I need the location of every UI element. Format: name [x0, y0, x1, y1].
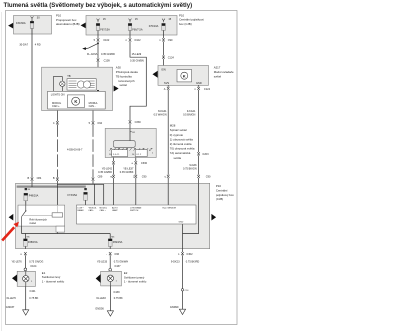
connector C96 under F69	[109, 252, 112, 255]
svg-text:C104: C104	[30, 264, 37, 268]
A30 inner module box	[48, 91, 106, 109]
wire auto lamp	[113, 183, 115, 205]
lamp symbol lights-on telltale	[60, 81, 65, 86]
A217 inner K box	[177, 70, 192, 82]
svg-text:0.35 GN/RD: 0.35 GN/RD	[101, 52, 115, 56]
svg-text:C330: C330	[135, 120, 142, 124]
svg-text:GND56: GND56	[95, 306, 104, 310]
svg-text:0.75 GN/WH: 0.75 GN/WH	[114, 259, 129, 263]
branch wire FL-GOVL with arrow	[86, 43, 98, 48]
svg-text:světel: světel	[29, 221, 36, 225]
svg-text:C94: C94	[97, 121, 102, 125]
svg-text:BEAM: BEAM	[78, 209, 84, 212]
svg-text:9-KA41: 9-KA41	[187, 109, 196, 113]
connector pins 4 and 5 under A30	[56, 111, 58, 122]
inline connector C437	[109, 268, 112, 271]
off-page arrow right of CJB	[211, 214, 216, 221]
switch contacts	[110, 148, 153, 151]
connector C84 pin B main wire	[31, 178, 34, 181]
riser right	[109, 234, 111, 239]
svg-text:C421: C421	[30, 289, 37, 293]
box A217 light control module	[158, 66, 209, 86]
svg-text:8-KA41: 8-KA41	[158, 109, 167, 113]
connector C102 pin n under F66	[129, 38, 132, 41]
fuse F68/15A	[24, 239, 28, 247]
svg-text:světla: světla	[174, 156, 182, 160]
svg-text:P10: P10	[216, 184, 221, 188]
svg-text:C90: C90	[142, 174, 147, 178]
box P10 battery junction box BJB	[14, 16, 52, 35]
svg-text:u: u	[20, 253, 22, 256]
svg-text:m: m	[110, 175, 112, 178]
connector C90 pin n under F70	[162, 38, 165, 41]
svg-text:n: n	[178, 253, 180, 256]
svg-text:C102: C102	[134, 38, 141, 42]
fuse F66/7.5A	[128, 23, 132, 30]
svg-text:C437: C437	[114, 264, 121, 268]
CAN twisted pair dashed wires	[56, 124, 58, 177]
connector C330 input	[129, 120, 132, 123]
svg-text:CAN +: CAN +	[100, 209, 107, 212]
box A30 instrument cluster	[42, 67, 113, 110]
connector pin B CAN minus	[56, 178, 59, 181]
switch detent outline	[114, 141, 136, 148]
wire bus feed to module	[103, 184, 105, 205]
svg-text:C90: C90	[206, 175, 211, 179]
switch position box right	[135, 150, 147, 157]
svg-text:0.35 GN/RD: 0.35 GN/RD	[98, 170, 112, 174]
page edge	[0, 12, 2, 331]
svg-text:GND: GND	[196, 81, 202, 85]
telltale lamp wire loop	[53, 77, 62, 92]
svg-text:LOW *: LOW *	[78, 207, 84, 209]
box P10 central junction box CJB	[16, 183, 210, 248]
svg-text:LIGHTS ON: LIGHTS ON	[51, 93, 65, 97]
wire fuse1 down with junction	[97, 30, 99, 38]
wire 9-KA41	[198, 90, 200, 152]
pin 30 fork on fuse F31	[31, 16, 34, 20]
wire rain sensor	[167, 183, 169, 205]
svg-text:YE-LE42: YE-LE42	[102, 167, 113, 171]
svg-text:YE-LE33: YE-LE33	[97, 259, 108, 263]
svg-text:0.75 BK/RD: 0.75 BK/RD	[186, 259, 200, 263]
pin 15 fork on fuse F67	[97, 19, 100, 23]
wire 31-LE33 ground side	[109, 282, 111, 286]
svg-text:0.5 WH/GN: 0.5 WH/GN	[154, 113, 167, 117]
lamp symbol E2	[107, 275, 113, 281]
svg-text:C90: C90	[168, 38, 173, 42]
svg-text:LAMP: LAMP	[112, 209, 118, 212]
svg-text:n: n	[159, 39, 161, 42]
red annotation arrow	[2, 227, 14, 240]
riser left	[24, 234, 26, 239]
svg-text:4-DB-00-06-7: 4-DB-00-06-7	[67, 147, 83, 151]
off-page arrow left of CJB strip	[81, 23, 86, 29]
svg-text:Modul ovladače: Modul ovladače	[214, 70, 234, 74]
svg-text:5 6 4 1: 5 6 4 1	[113, 154, 120, 156]
connector C330 outputs of M28	[112, 161, 115, 164]
svg-text:0.75 BK: 0.75 BK	[114, 296, 123, 300]
svg-text:4 RD: 4 RD	[35, 42, 41, 46]
connector C90 pin 3	[135, 175, 138, 178]
wire fuse3 down	[163, 30, 165, 38]
wire 31-LE76 ground side	[25, 282, 27, 286]
off-page arrow left of CJB	[9, 214, 14, 221]
svg-text:FL-GOVL: FL-GOVL	[87, 52, 98, 56]
relay output wire to fuses	[21, 226, 23, 233]
svg-text:C89: C89	[98, 175, 103, 179]
svg-text:*MODUL: *MODUL	[88, 207, 97, 209]
svg-text:F68/15A: F68/15A	[28, 240, 38, 244]
fuse F70/10A	[162, 23, 166, 30]
svg-text:Přístrojová deska: Přístrojová deska	[116, 70, 138, 74]
svg-text:1 - tlumené světlo: 1 - tlumené světlo	[124, 280, 147, 284]
svg-text:0) vypnuto: 0) vypnuto	[170, 133, 184, 137]
relay contact	[25, 205, 27, 211]
pin 15 fork on fuse F66	[129, 19, 132, 23]
wire YE-LE37	[135, 158, 137, 162]
svg-text:TB kontrolka: TB kontrolka	[116, 74, 132, 78]
svg-text:70) obrysová světla: 70) obrysová světla	[170, 147, 195, 151]
outer frame	[6, 11, 238, 325]
svg-text:31-LE76: 31-LE76	[6, 296, 16, 300]
wire control through relay	[56, 205, 58, 213]
svg-text:A30: A30	[116, 66, 121, 70]
svg-text:0.75 GN/OG: 0.75 GN/OG	[29, 259, 43, 263]
svg-text:F69/15A: F69/15A	[113, 240, 123, 244]
svg-text:n: n	[126, 39, 128, 42]
svg-text:F70/10A: F70/10A	[149, 24, 159, 28]
wire YE-LE76 to left headlamp	[24, 255, 26, 268]
svg-text:TB: TB	[67, 74, 71, 78]
svg-text:F31/60A: F31/60A	[16, 21, 26, 25]
svg-text:15-LE29: 15-LE29	[132, 52, 142, 56]
svg-text:F73/15A: F73/15A	[68, 193, 78, 197]
connector C302	[181, 252, 184, 255]
svg-text:B: B	[27, 176, 29, 180]
svg-text:CAN -: CAN -	[88, 209, 94, 212]
wire 8-KA41	[167, 90, 169, 175]
off-page arrow left of E2	[96, 274, 101, 282]
svg-text:1) obrysová světla: 1) obrysová světla	[170, 137, 193, 141]
connector C102 pin 5 under F67	[97, 38, 100, 41]
connector pin m	[112, 175, 115, 178]
module box inside CJB	[77, 205, 197, 224]
svg-text:GND99: GND99	[170, 305, 179, 309]
svg-text:pojistkový box: pojistkový box	[216, 193, 234, 197]
relay coil	[52, 213, 63, 217]
wire YE-LE33 to right headlamp	[109, 255, 111, 268]
svg-text:F66/7.5A: F66/7.5A	[132, 27, 143, 31]
svg-text:-: -	[106, 253, 107, 256]
pin B1 tick	[130, 131, 132, 133]
svg-text:Spínač světel: Spínač světel	[170, 128, 187, 132]
fuse F67/15A	[96, 23, 100, 30]
svg-text:5: 5	[89, 121, 91, 125]
lamp symbol E1	[23, 276, 29, 282]
bus bar 30 feed	[17, 186, 86, 188]
wire CAN minus to relay	[56, 183, 58, 213]
svg-text:(CJB): (CJB)	[216, 197, 223, 201]
wire CAN jog	[57, 183, 103, 185]
svg-text:YE-LE37: YE-LE37	[123, 167, 134, 171]
svg-text:C84: C84	[37, 176, 42, 180]
svg-text:Relé tlumených: Relé tlumených	[29, 217, 47, 221]
svg-text:K: K	[74, 99, 77, 104]
svg-text:CAN +: CAN +	[52, 104, 60, 108]
connector C109	[97, 59, 100, 62]
svg-text:MODUL: MODUL	[89, 101, 99, 105]
svg-text:M28: M28	[170, 124, 176, 128]
connector C124	[162, 56, 165, 59]
CAN transceiver K symbol	[67, 95, 84, 108]
svg-text:GND: GND	[179, 221, 184, 223]
svg-text:C16: C16	[185, 290, 190, 292]
svg-text:7A) automatická: 7A) automatická	[170, 151, 191, 155]
fuse F48/20A tap	[25, 188, 28, 190]
svg-text:A: A	[164, 87, 166, 91]
svg-text:rozsvícených: rozsvícených	[118, 79, 135, 83]
svg-text:CAN -: CAN -	[89, 104, 96, 108]
wire 9-DK23 module ground	[182, 255, 184, 309]
wire CAN plus to module	[92, 183, 94, 184]
svg-text:K: K	[183, 73, 186, 78]
svg-text:0.5 BN/GN: 0.5 BN/GN	[183, 113, 195, 117]
connector C89 CAN plus	[92, 178, 95, 181]
svg-text:1 - tlumené světlo: 1 - tlumené světlo	[42, 279, 65, 283]
svg-text:GND37: GND37	[6, 305, 15, 309]
svg-text:B: B	[53, 176, 55, 180]
off-page arrow right of A30	[114, 86, 119, 92]
connector C203	[197, 152, 200, 155]
off-page arrow left of BJB	[8, 23, 13, 29]
svg-text:C302: C302	[186, 252, 193, 256]
wire ground route	[183, 183, 199, 233]
box E1 left headlamp	[17, 271, 35, 286]
svg-text:Tlumená světla (Světlomety bez: Tlumená světla (Světlomety bez výbojek, …	[4, 2, 193, 9]
box M28 headlamp switch	[105, 128, 156, 157]
off-page arrow left of A217	[153, 71, 158, 78]
wire stubs into bus	[31, 183, 33, 187]
svg-text:MODUL: MODUL	[52, 101, 62, 105]
connector C90 right	[197, 175, 200, 178]
svg-text:A217: A217	[214, 66, 221, 70]
svg-text:n: n	[194, 88, 196, 91]
svg-text:AUTO: AUTO	[112, 206, 118, 209]
svg-text:C124: C124	[204, 87, 211, 91]
svg-text:31-LE33: 31-LE33	[96, 296, 106, 300]
svg-text:světel: světel	[120, 83, 128, 87]
fuse F31/60A	[31, 20, 33, 21]
svg-text:F48/20A: F48/20A	[29, 193, 39, 197]
connector C124 pins under A217	[167, 85, 169, 87]
svg-text:9-DK23: 9-DK23	[171, 259, 180, 263]
svg-text:SWITCH: SWITCH	[130, 210, 139, 212]
inline connector C16	[181, 289, 183, 291]
svg-text:box (CJB): box (CJB)	[179, 22, 192, 26]
relay low beam box	[18, 205, 65, 226]
junction node	[97, 43, 99, 45]
svg-text:C330: C330	[141, 161, 148, 165]
svg-text:C439: C439	[113, 290, 120, 294]
svg-text:F67/15A: F67/15A	[100, 27, 110, 31]
svg-text:2) tlumená světla: 2) tlumená světla	[170, 142, 192, 146]
fuse F73/15A tap	[84, 188, 87, 190]
svg-text:0.35 GN/BN: 0.35 GN/BN	[130, 58, 144, 62]
svg-text:C124: C124	[168, 55, 175, 59]
box E2 right headlamp	[101, 271, 122, 286]
svg-text:u: u	[165, 175, 167, 178]
svg-text:30-DA7: 30-DA7	[19, 42, 28, 46]
svg-text:5: 5	[94, 38, 96, 42]
fuse F69/15A	[108, 239, 112, 247]
svg-text:YE-LE76: YE-LE76	[11, 259, 22, 263]
svg-text:C96: C96	[114, 252, 119, 256]
switch position box left	[112, 150, 128, 157]
wire YE-LE42	[113, 158, 115, 162]
svg-text:MODUL: MODUL	[100, 207, 108, 209]
wire low beam switch	[135, 183, 137, 205]
relay mechanical link	[24, 215, 53, 217]
svg-text:C102: C102	[103, 38, 110, 42]
svg-text:9-DA6: 9-DA6	[189, 163, 197, 167]
terminal of fuse1 wire	[97, 90, 99, 91]
wire fuse2 15-LE29 with jog	[129, 30, 131, 38]
svg-text:LOW BEAM: LOW BEAM	[130, 206, 141, 209]
svg-text:C109: C109	[104, 58, 111, 62]
svg-text:Centrální: Centrální	[216, 188, 228, 192]
svg-text:0.35 GN/BK: 0.35 GN/BK	[120, 170, 134, 174]
svg-text:4: 4	[53, 121, 55, 125]
svg-text:C203: C203	[202, 152, 209, 156]
inline connector C104	[24, 268, 27, 271]
svg-text:Rain SENSOR: Rain SENSOR	[163, 207, 177, 209]
svg-text:světel: světel	[214, 75, 222, 79]
box P10 central junction box top strip	[86, 16, 177, 36]
wire 30-DA7 from F31	[31, 28, 33, 177]
svg-text:0.75 BK/GN: 0.75 BK/GN	[183, 167, 197, 171]
svg-text:IGN: IGN	[161, 67, 166, 71]
svg-text:akumulátoru (BJB): akumulátoru (BJB)	[56, 22, 80, 26]
connector pin u under F68	[24, 252, 27, 255]
pin 15 fork on fuse F70	[162, 19, 165, 23]
svg-text:e: e	[132, 162, 134, 165]
off-page arrow left of E1	[12, 275, 17, 283]
svg-text:0.75 BK: 0.75 BK	[29, 296, 38, 300]
svg-text:SVS: SVS	[164, 81, 169, 85]
